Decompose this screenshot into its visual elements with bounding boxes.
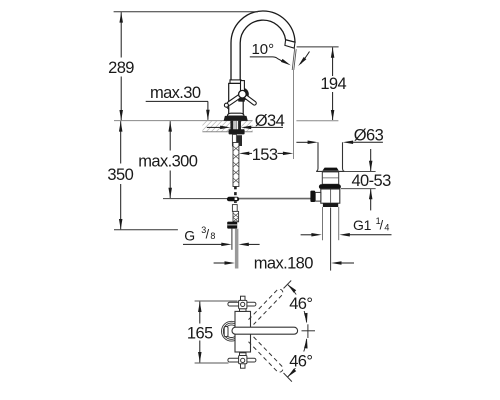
drain nut xyxy=(323,203,338,207)
handle dark ring xyxy=(236,88,249,101)
drain rod knob xyxy=(310,191,315,202)
rod coupling xyxy=(227,197,239,202)
svg-text:165: 165 xyxy=(187,324,213,342)
drain plug seam xyxy=(322,168,338,171)
46 bottom xyxy=(287,352,315,369)
angle arc bottom xyxy=(286,338,308,379)
handle dark wedge xyxy=(237,97,245,102)
dim G1 1/4 xyxy=(301,216,392,236)
svg-text:46°: 46° xyxy=(289,352,312,370)
dim O63 xyxy=(296,126,383,144)
spout tube xyxy=(231,11,295,80)
hose connector xyxy=(227,222,237,229)
collar xyxy=(230,80,241,84)
ext line top xyxy=(195,300,238,302)
drain O-ring xyxy=(319,184,341,189)
drain housing xyxy=(321,189,340,203)
dim max.300 xyxy=(138,121,198,198)
dim 153 xyxy=(239,146,293,164)
water stream xyxy=(292,48,295,70)
tailpipe xyxy=(322,207,324,240)
svg-text:max.180: max.180 xyxy=(254,254,314,272)
dim 289 xyxy=(108,12,258,121)
svg-text:40-53: 40-53 xyxy=(351,172,391,190)
ext line bottom xyxy=(195,362,229,364)
escutcheon circles xyxy=(222,321,242,341)
dim 40-53 xyxy=(341,149,391,210)
pop-up linkage rod xyxy=(163,198,228,200)
escutcheon dome xyxy=(227,113,244,116)
handle hub xyxy=(239,90,247,98)
dim 350 xyxy=(107,121,177,230)
dim G 3/8 xyxy=(183,225,260,246)
drain neck xyxy=(322,172,338,184)
drain flange xyxy=(316,170,344,172)
svg-text:10°: 10° xyxy=(251,41,274,58)
body xyxy=(229,83,244,115)
svg-text:Ø63: Ø63 xyxy=(354,126,384,144)
svg-text:4: 4 xyxy=(384,223,389,233)
dim 10deg xyxy=(250,41,310,67)
mounting nut xyxy=(229,129,245,134)
handle left spoke xyxy=(229,95,241,103)
dashed spout down xyxy=(249,337,295,384)
dim max.30 xyxy=(146,84,210,120)
handle top spoke xyxy=(241,81,245,91)
deck hatch xyxy=(196,120,262,132)
svg-text:/: / xyxy=(380,219,384,233)
cross mark xyxy=(302,330,316,332)
drain center line xyxy=(330,208,332,271)
svg-text:max.300: max.300 xyxy=(138,152,198,170)
angle arc top xyxy=(286,283,308,324)
supply hose xyxy=(235,229,239,269)
svg-text:153: 153 xyxy=(252,146,278,164)
spout bar xyxy=(232,327,298,334)
46 top xyxy=(287,295,315,312)
dim 165 xyxy=(187,302,213,363)
lift rod lower xyxy=(232,205,237,212)
svg-text:G: G xyxy=(184,227,195,243)
deck right extension line xyxy=(296,120,338,122)
hose nipple block xyxy=(237,135,242,146)
svg-text:/: / xyxy=(206,228,210,242)
dim max.180 xyxy=(214,254,354,272)
dashed spout up xyxy=(249,278,294,324)
drain cylinder xyxy=(317,142,319,168)
svg-text:G1: G1 xyxy=(353,217,372,233)
aerator xyxy=(285,40,295,48)
plan handle bottom xyxy=(228,353,256,368)
handle right spoke xyxy=(243,95,254,103)
svg-text:350: 350 xyxy=(107,166,133,184)
dim 194 xyxy=(297,47,347,121)
plan body xyxy=(235,311,251,352)
escutcheon flare xyxy=(224,116,248,121)
svg-text:194: 194 xyxy=(320,75,346,93)
svg-text:8: 8 xyxy=(210,231,215,241)
plan handle top xyxy=(228,296,256,311)
dim O34 xyxy=(207,112,285,130)
svg-text:max.30: max.30 xyxy=(150,84,201,102)
drain side port xyxy=(315,192,321,201)
lift rod dashes xyxy=(234,187,237,190)
deck bottom line xyxy=(202,131,252,133)
plan lift knob xyxy=(224,327,228,337)
lift rod threaded upper xyxy=(233,143,239,187)
svg-text:289: 289 xyxy=(108,59,134,77)
deck top line xyxy=(114,120,253,122)
lift rod knob xyxy=(224,103,228,107)
mounting shank xyxy=(233,121,238,132)
svg-text:46°: 46° xyxy=(289,295,312,313)
